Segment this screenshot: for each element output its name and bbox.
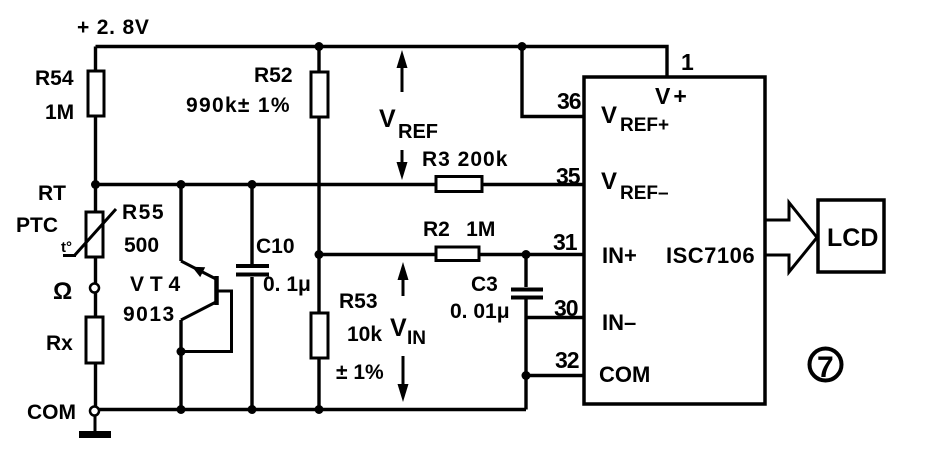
LCD display [818,200,884,272]
Vin dimension arrow [390,262,426,402]
svg-text:R55: R55 [122,201,165,224]
wire VT4 column upper [179,185,182,262]
svg-text:1M: 1M [45,101,74,124]
svg-text:+ 2. 8V: + 2. 8V [77,16,150,39]
svg-text:t°: t° [61,239,72,256]
resistor R54 [35,67,104,124]
wire +2.8V top rail to pin 1 [96,47,668,78]
wire pin 36 branch [522,47,584,117]
svg-text:7: 7 [817,351,834,384]
resistor R2 1M [423,218,495,261]
wire Vref- line to pin 35 [96,183,585,186]
svg-text:REF+: REF+ [620,115,669,136]
svg-text:1: 1 [681,49,694,75]
svg-text:R3 200k: R3 200k [422,148,508,171]
svg-text:RT: RT [38,182,66,205]
svg-text:IN: IN [407,328,426,349]
svg-text:± 1%: ± 1% [336,361,384,384]
svg-text:0. 01μ: 0. 01μ [450,300,510,323]
svg-text:V: V [601,102,617,129]
transistor VT4 9013 [123,261,232,352]
svg-text:990k± 1%: 990k± 1% [186,94,291,117]
svg-text:REF–: REF– [620,183,669,204]
svg-text:R54: R54 [35,67,74,90]
node COM terminal [27,401,99,424]
svg-text:35: 35 [556,163,581,189]
wire pin 30 [526,316,584,319]
svg-text:LCD: LCD [827,224,878,252]
svg-text:30: 30 [554,295,578,321]
resistor R53 [311,290,384,384]
svg-text:V: V [601,168,617,195]
resistor R52 [186,64,328,117]
svg-text:V: V [390,314,407,342]
svg-text:V+: V+ [655,83,690,109]
svg-text:Ω: Ω [53,278,72,305]
svg-text:R2 1M: R2 1M [423,218,495,241]
svg-text:COM: COM [599,362,650,387]
svg-text:PTC: PTC [16,214,58,237]
figure number 7 [810,349,842,385]
svg-text:ISC7106: ISC7106 [666,243,755,268]
capacitor C10 [236,235,311,296]
svg-text:REF: REF [398,121,438,143]
svg-text:31: 31 [553,229,578,255]
svg-text:Rx: Rx [46,332,73,355]
svg-text:C10: C10 [256,235,295,258]
svg-text:V: V [379,105,396,133]
IC U1 ISC7106 [584,77,765,404]
wire R52/R53 column [317,47,320,410]
svg-text:500: 500 [124,234,159,257]
svg-text:9013: 9013 [123,303,176,326]
wire pin 32 [526,374,584,377]
ground [79,416,111,435]
wire IN+ line to pin 31 [319,253,584,256]
svg-text:C3: C3 [471,273,498,296]
capacitor C3 [450,273,543,323]
svg-text:R52: R52 [254,64,293,87]
Vref dimension arrow [379,50,438,180]
wire left column (R54 / RT / Rx) [94,47,97,408]
svg-text:IN+: IN+ [602,243,637,268]
thermistor RT PTC [16,182,116,257]
svg-text:COM: COM [27,401,76,424]
svg-text:10k: 10k [347,323,382,346]
wire C10 column [250,185,253,410]
node Ω terminal [53,278,99,305]
label R55 500 [122,201,165,257]
svg-text:36: 36 [557,88,581,114]
wire COM bottom rail [98,408,526,411]
svg-text:V T 4: V T 4 [130,273,181,296]
svg-text:32: 32 [555,347,579,373]
wire VT4 column lower [179,320,182,410]
resistor R3 200k [422,148,508,192]
wire C3 column [524,255,527,410]
svg-text:0. 1μ: 0. 1μ [263,273,311,296]
resistor Rx [46,317,103,363]
svg-text:IN–: IN– [602,310,636,335]
svg-text:R53: R53 [339,290,378,313]
block arrow to LCD [765,203,817,273]
